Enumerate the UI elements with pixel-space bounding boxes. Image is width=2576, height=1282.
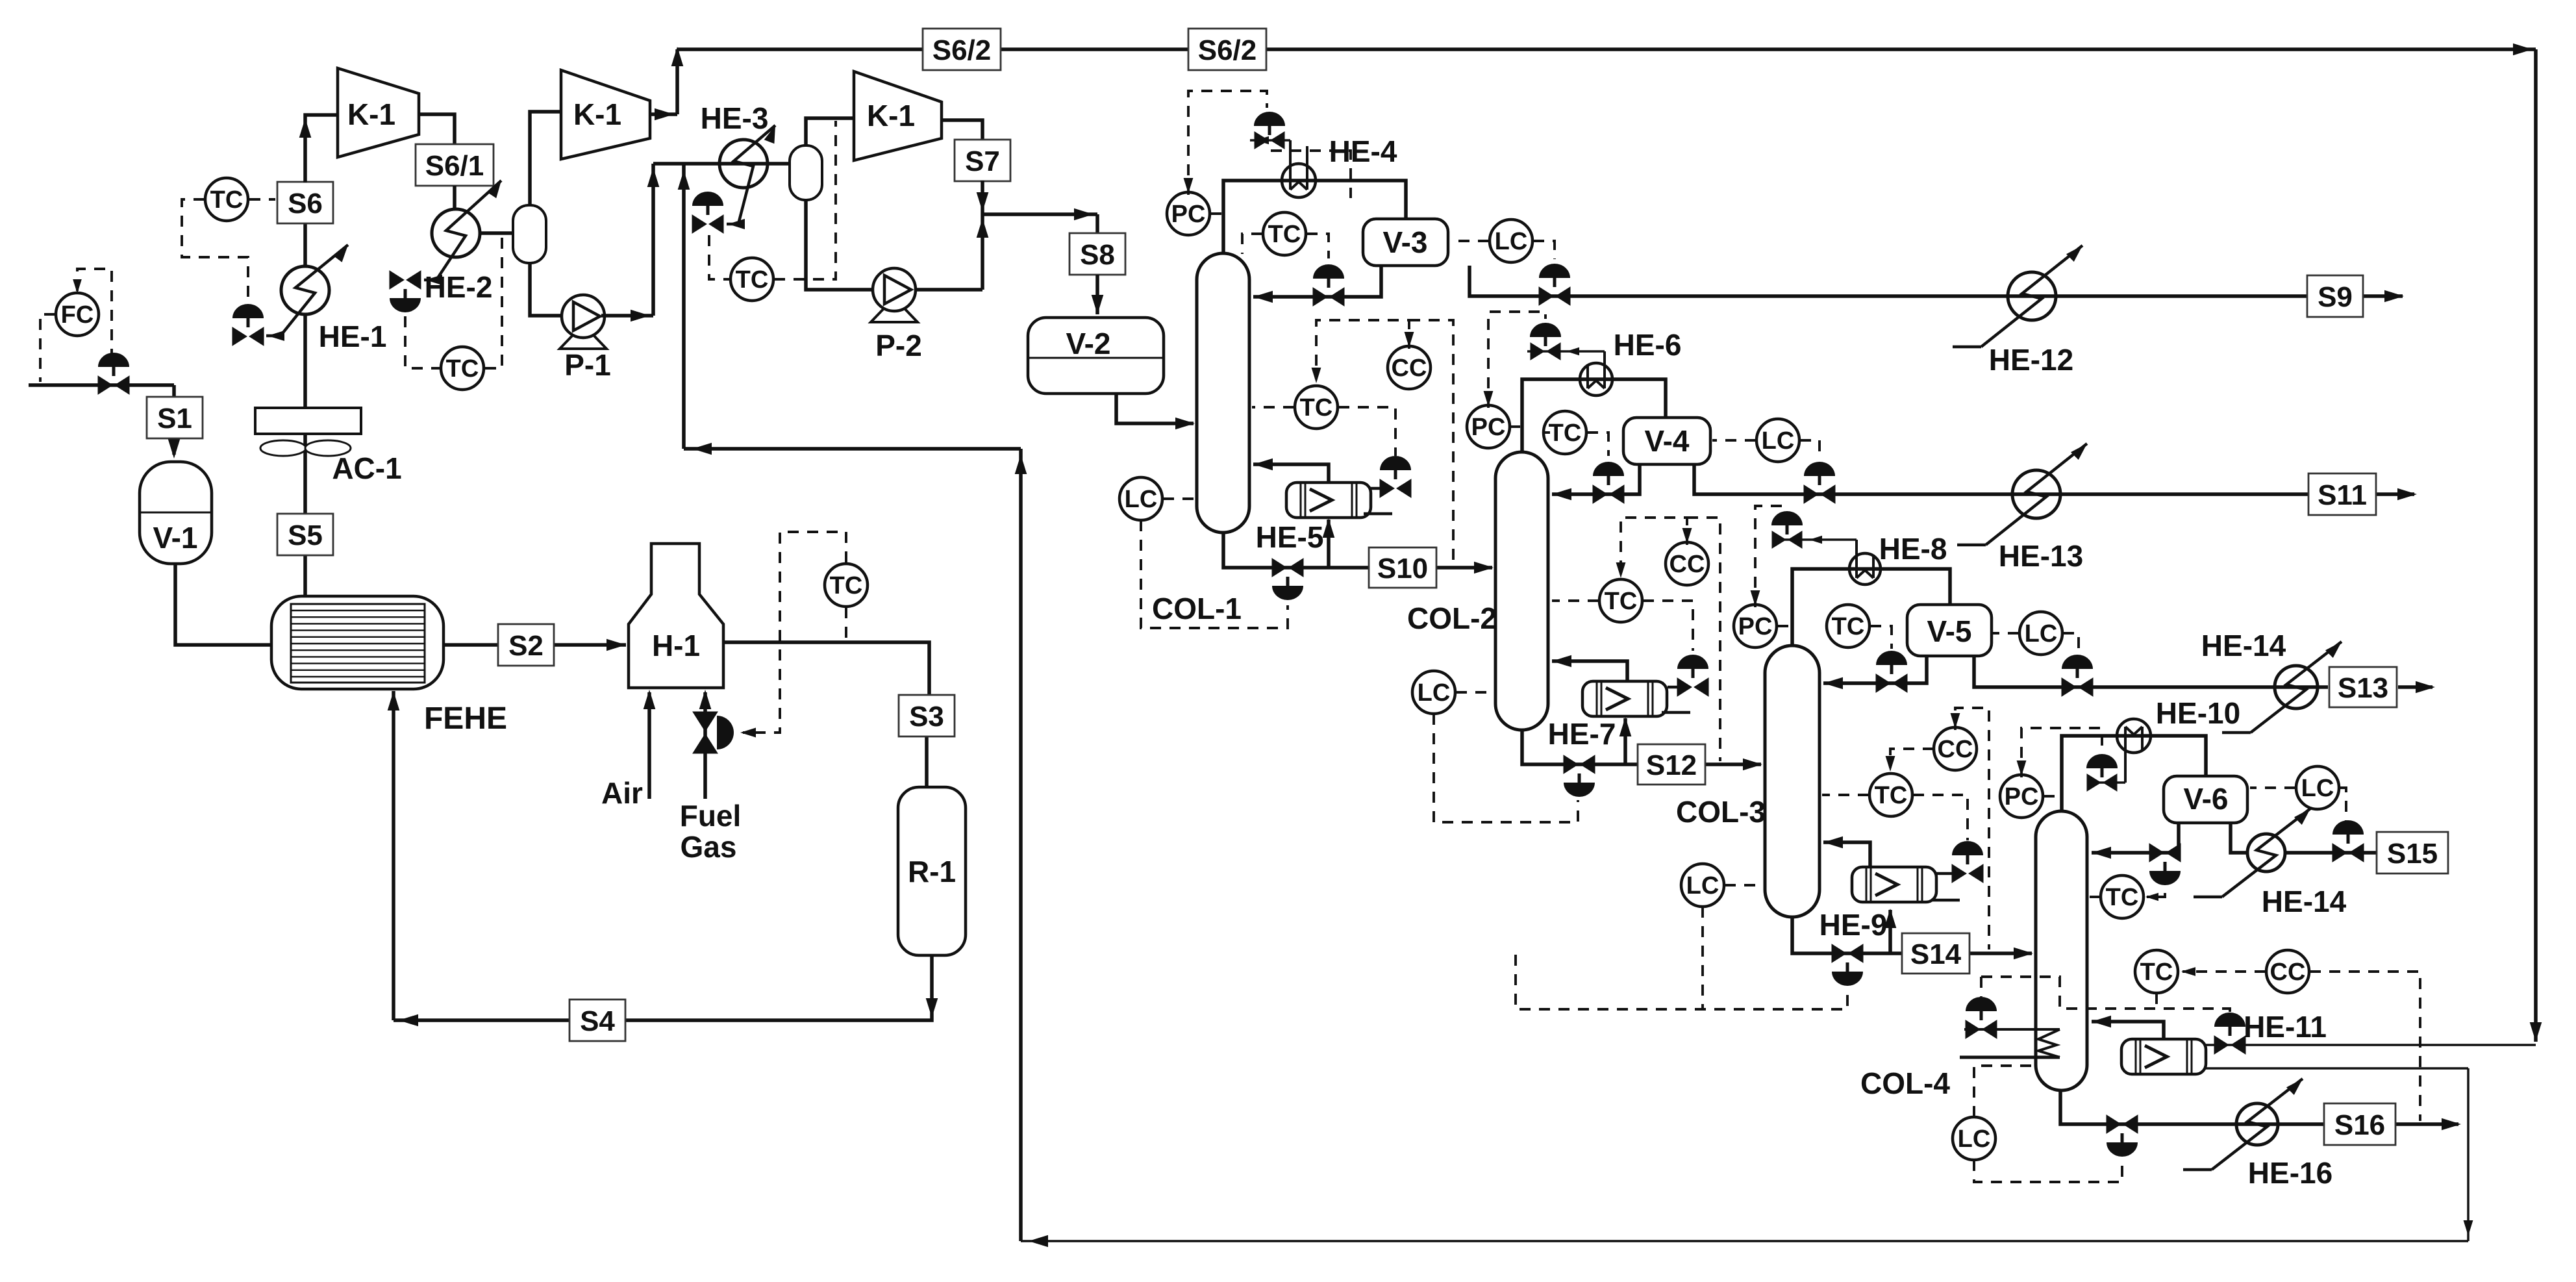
- wire HE-2 to flash drum: [481, 231, 513, 235]
- valve HE-4 coolant: [1254, 112, 1285, 149]
- svg-text:S12: S12: [1646, 749, 1697, 781]
- svg-text:TC: TC: [1549, 420, 1582, 447]
- label HE-14 top: [2201, 629, 2286, 662]
- svg-text:COL-2: COL-2: [1407, 601, 1497, 635]
- svg-text:HE-6: HE-6: [1614, 328, 1682, 362]
- wire TC HE-2 dashes: [405, 235, 502, 368]
- svg-text:HE-14: HE-14: [2201, 629, 2286, 662]
- furnace H-1: [629, 544, 723, 688]
- wire recycle riser to HE-3 line: [678, 164, 690, 449]
- valve S9 line: [1539, 264, 1570, 305]
- svg-text:S11: S11: [2318, 479, 2367, 511]
- heat-exchanger HE-3: [719, 140, 768, 188]
- wire K-1 out to S6/1: [419, 114, 455, 144]
- controller TC COL-4 lower: [2135, 950, 2178, 993]
- wire R-1 to S4 recycle to FEHE: [388, 691, 938, 1026]
- svg-text:S2: S2: [508, 630, 544, 662]
- svg-text:S9: S9: [2318, 281, 2353, 313]
- wire PC COL-2 dashes: [1484, 312, 1545, 427]
- wire TC COL-3 reflux dashes: [1870, 626, 1892, 649]
- wire recycle return vertical: [1015, 449, 1027, 1241]
- controller TC COL-3 reflux: [1827, 605, 1869, 647]
- controller LC V-6: [2296, 766, 2339, 809]
- valve HE-2 utility: [390, 271, 421, 312]
- label HE-4: [1329, 134, 1397, 168]
- heat-exchanger HE-2: [432, 209, 480, 257]
- wire HE-4 coolant control dashes: [1271, 151, 1351, 198]
- svg-text:COL-1: COL-1: [1152, 592, 1242, 625]
- svg-text:TC: TC: [1832, 613, 1865, 640]
- svg-text:R-1: R-1: [908, 855, 956, 888]
- wire LC COL-1 dashes: [1141, 499, 1288, 628]
- svg-text:FEHE: FEHE: [424, 701, 507, 736]
- svg-text:S14: S14: [1910, 938, 1962, 970]
- label HE-12: [1989, 343, 2073, 377]
- wire V-2 to COL-1 feed: [1116, 394, 1195, 429]
- svg-text:TC: TC: [830, 572, 863, 599]
- valve HE-11 steam: [2214, 1012, 2245, 1054]
- svg-text:S6/1: S6/1: [425, 150, 484, 182]
- reboiler HE-7: [1582, 681, 1667, 716]
- stream label S3: [899, 695, 955, 736]
- svg-text:LC: LC: [1958, 1125, 1991, 1153]
- label HE-1: [319, 320, 387, 353]
- svg-text:HE-11: HE-11: [2244, 1010, 2327, 1044]
- svg-text:P-1: P-1: [564, 348, 611, 382]
- wire TC HE-1 dashes: [182, 199, 275, 301]
- label HE-14 bottom: [2262, 885, 2347, 918]
- wire TC COL-2 reboiler dashes: [1552, 601, 1693, 651]
- wire HE-3 utility diagonal: [727, 125, 775, 229]
- wire LC COL-2 dashes: [1434, 692, 1578, 822]
- wire S6/1 to HE-2: [453, 186, 456, 209]
- controller TC HE-3: [731, 258, 773, 301]
- svg-text:HE-12: HE-12: [1989, 343, 2073, 377]
- controller PC COL-2: [1467, 405, 1510, 448]
- controller LC COL-3: [1681, 864, 1724, 907]
- stream label S13: [2329, 667, 2397, 707]
- svg-text:HE-2: HE-2: [425, 270, 493, 304]
- svg-text:FC: FC: [61, 301, 94, 329]
- heat-exchanger HE-13: [2012, 470, 2060, 518]
- label Fuel Gas: [680, 799, 742, 864]
- wire LC V-4 dashes: [1712, 440, 1819, 460]
- label HE-16: [2248, 1156, 2332, 1190]
- controller TC COL-2 reboiler: [1599, 579, 1642, 622]
- svg-text:PC: PC: [1471, 414, 1506, 441]
- stream label S12: [1638, 744, 1705, 785]
- wire TC HE-3 dashes: [709, 121, 836, 279]
- valve fuel gas: [693, 712, 734, 753]
- wire HE-14 top utility diagonal: [2222, 642, 2342, 733]
- condenser HE-8: [1773, 536, 1881, 584]
- svg-text:LC: LC: [1762, 427, 1795, 455]
- wire COL-4 side heater: [1960, 1029, 2060, 1057]
- controller CC COL-1: [1388, 346, 1431, 389]
- wire COL-3 overhead to HE-8 to V-5: [1792, 569, 1950, 646]
- wire V-1 to FEHE: [175, 564, 270, 645]
- svg-text:S10: S10: [1377, 553, 1428, 584]
- wire main line through HE-3: [653, 162, 790, 166]
- svg-text:Air: Air: [601, 776, 643, 810]
- wire HE-9 vapor return to COL-3: [1823, 836, 1870, 867]
- svg-text:V-4: V-4: [1644, 424, 1689, 458]
- label HE-2: [425, 270, 493, 304]
- label HE-10: [2156, 696, 2240, 730]
- valve HE-10 coolant: [2086, 754, 2118, 791]
- reboiler HE-9: [1852, 867, 1936, 902]
- wire HE-2 utility diagonal: [424, 181, 501, 285]
- stream label S15: [2377, 832, 2448, 874]
- svg-text:AC-1: AC-1: [332, 451, 401, 485]
- svg-text:HE-5: HE-5: [1256, 520, 1324, 554]
- condenser HE-4: [1250, 136, 1316, 197]
- wire CC COL-2 dashes: [1616, 518, 1720, 761]
- svg-text:LC: LC: [1125, 486, 1158, 513]
- vessel V-6: [2164, 776, 2247, 823]
- svg-text:Gas: Gas: [681, 830, 737, 864]
- valve HE-5 steam: [1380, 456, 1411, 497]
- valve FCV on feed line: [98, 353, 129, 394]
- svg-text:S5: S5: [288, 520, 323, 551]
- stream label S7: [955, 140, 1010, 181]
- wire FEHE to S2 to H-1: [444, 639, 626, 651]
- wire FC control dashes: [40, 269, 112, 382]
- label HE-7: [1548, 717, 1616, 751]
- stream label S10: [1369, 547, 1436, 588]
- stream label S6/2 left: [923, 29, 1001, 70]
- svg-text:S4: S4: [580, 1005, 615, 1037]
- wire V-6 to HE-14 to S15: [2231, 823, 2376, 853]
- wire HE-7 vapor return to COL-2: [1552, 655, 1627, 681]
- svg-text:S6: S6: [288, 188, 323, 220]
- wire AC-1 to HE-1: [303, 314, 307, 408]
- label HE-5: [1256, 520, 1324, 554]
- stream label S8: [1069, 233, 1125, 275]
- svg-text:HE-10: HE-10: [2156, 696, 2240, 730]
- controller PC COL-4: [2000, 775, 2043, 818]
- vessel flash drum 1: [513, 205, 546, 263]
- wire V-5 reflux to COL-3: [1823, 656, 1927, 689]
- wire LC COL-3 dashes: [1516, 885, 1847, 1009]
- valve S15 line: [2332, 820, 2364, 862]
- svg-text:CC: CC: [1938, 736, 1973, 763]
- svg-text:S3: S3: [909, 701, 944, 733]
- valve COL-3 bottoms: [1832, 944, 1863, 986]
- wire P-1 outlet riser: [601, 164, 659, 321]
- label HE-6: [1614, 328, 1682, 362]
- condenser HE-6: [1527, 347, 1612, 396]
- svg-text:K-1: K-1: [867, 99, 915, 132]
- svg-text:TC: TC: [1300, 394, 1333, 421]
- svg-text:HE-16: HE-16: [2248, 1156, 2332, 1190]
- wire drum1 to K-1 second stage: [530, 112, 560, 205]
- heat-exchanger HE-14 top: [2275, 666, 2318, 709]
- label Air: [601, 776, 643, 810]
- svg-text:HE-8: HE-8: [1879, 532, 1947, 566]
- wire fuel gas line into H-1: [699, 690, 712, 799]
- label FEHE: [424, 701, 507, 736]
- controller TC COL-3 reboiler: [1869, 773, 1912, 816]
- valve COL-2 reflux: [1593, 462, 1624, 503]
- controller CC COL-3: [1934, 727, 1977, 770]
- column COL-2: [1495, 452, 1548, 730]
- wire LC V-3 dashes: [1451, 241, 1555, 259]
- controller TC HE-2: [441, 347, 484, 390]
- wire PC COL-4 dashes: [2017, 728, 2102, 796]
- column COL-1: [1197, 253, 1249, 533]
- pump P-1: [560, 295, 611, 382]
- stream label S4: [569, 999, 625, 1041]
- heat-exchanger HE-16: [2236, 1103, 2278, 1145]
- svg-text:COL-4: COL-4: [1860, 1066, 1950, 1100]
- valve COL-3 reflux: [1876, 651, 1907, 692]
- svg-text:S6/2: S6/2: [1198, 34, 1257, 66]
- wire COL-2 bottoms S12 line: [1522, 717, 1762, 770]
- reboiler HE-11: [2121, 1039, 2206, 1074]
- wire LC V-6 dashes: [2250, 788, 2346, 821]
- wire K-1 second out to S6/2 header: [650, 47, 683, 120]
- svg-text:Fuel: Fuel: [680, 799, 742, 833]
- vessel flash drum 2: [790, 145, 822, 200]
- wire HE-5 steam line: [1364, 488, 1392, 514]
- wire H-1 outlet to S3: [723, 642, 929, 787]
- controller CC COL-4: [2266, 950, 2309, 993]
- wire TC COL-4 reflux dashes: [2090, 874, 2165, 901]
- wire V-5 distillate S13 line: [1974, 656, 2435, 693]
- wire V-4 reflux to COL-2: [1552, 464, 1640, 500]
- label COL-1: [1152, 592, 1242, 625]
- valve HE-8 coolant: [1771, 511, 1803, 548]
- label HE-9: [1819, 908, 1888, 942]
- stream label S6/2 right: [1188, 29, 1266, 70]
- wire LC COL-4 dashes: [1974, 1066, 2122, 1182]
- svg-text:S15: S15: [2387, 838, 2438, 870]
- wire HE-1 to S6: [303, 223, 307, 266]
- svg-text:LC: LC: [1495, 228, 1528, 255]
- svg-text:S7: S7: [965, 145, 1000, 177]
- valve COL-1 bottoms: [1272, 559, 1303, 600]
- svg-text:COL-3: COL-3: [1676, 795, 1766, 829]
- wire FEHE shell outlet riser S5: [303, 434, 307, 596]
- valve HE-1 utility: [232, 304, 264, 346]
- wire TC furnace dashes: [740, 532, 846, 737]
- wire V-4 distillate S11 line: [1694, 464, 2417, 500]
- svg-text:CC: CC: [1392, 355, 1427, 382]
- reboiler HE-5: [1286, 483, 1371, 518]
- svg-text:S6/2: S6/2: [932, 34, 992, 66]
- heat-exchanger HE-14 bottom: [2247, 834, 2285, 872]
- svg-text:S8: S8: [1080, 239, 1115, 271]
- wire V-3 distillate S9 line: [1469, 266, 2404, 302]
- controller CC COL-2: [1666, 542, 1708, 585]
- svg-text:HE-3: HE-3: [701, 101, 769, 135]
- svg-text:TC: TC: [210, 186, 244, 214]
- wire HE-11 condensate to bottom return: [2206, 1068, 2473, 1241]
- label HE-3: [701, 101, 769, 135]
- compressor K-1 first stage: [338, 68, 419, 157]
- wire air line into H-1: [644, 690, 656, 799]
- svg-text:TC: TC: [2140, 959, 2173, 986]
- wire TC COL-2 reflux dashes: [1543, 433, 1608, 456]
- wire K-1 third out to S7: [942, 120, 982, 140]
- stream label S2: [498, 624, 554, 666]
- stream label S6: [277, 182, 333, 223]
- svg-text:S13: S13: [2338, 672, 2388, 704]
- wire HE-12 utility diagonal: [1953, 245, 2082, 347]
- svg-text:V-2: V-2: [1066, 327, 1110, 360]
- vessel V-1: [140, 462, 212, 564]
- wire TC COL-3 reboiler dashes: [1822, 795, 1968, 840]
- svg-text:PC: PC: [1171, 201, 1206, 228]
- wire HE-9 steam line: [1931, 874, 1960, 900]
- wire HE-16 utility diagonal: [2183, 1079, 2303, 1170]
- svg-text:HE-13: HE-13: [1999, 539, 2083, 573]
- svg-text:TC: TC: [1605, 588, 1638, 615]
- wire P-2 outlet riser: [914, 214, 988, 290]
- heat-exchanger HE-12: [2008, 272, 2056, 320]
- svg-text:LC: LC: [2025, 620, 2058, 647]
- controller LC V-3: [1490, 220, 1532, 262]
- svg-text:TC: TC: [2106, 884, 2139, 911]
- valve COL-4 bottoms: [2107, 1115, 2138, 1157]
- vessel V-2: [1028, 318, 1164, 394]
- reactor R-1: [898, 787, 966, 955]
- valve COL-2 bottoms: [1564, 755, 1595, 797]
- valve COL-4 reflux: [2149, 844, 2181, 885]
- controller TC COL-4 reflux: [2101, 875, 2144, 918]
- wire HE-7 steam line: [1662, 687, 1690, 712]
- valve HE-3 utility: [692, 192, 723, 233]
- svg-text:LC: LC: [1686, 872, 1719, 899]
- wire CC COL-4 dashes: [2181, 967, 2420, 1121]
- wire COL-4 overhead to HE-10 to V-6: [2062, 736, 2206, 811]
- svg-text:V-6: V-6: [2183, 782, 2228, 816]
- wire HE-5 vapor return to COL-1: [1253, 459, 1329, 483]
- wire CC COL-3 dashes: [1886, 708, 1989, 949]
- vessel V-4: [1623, 418, 1710, 464]
- svg-text:V-1: V-1: [153, 521, 197, 555]
- heat-exchanger FEHE shell: [271, 596, 444, 689]
- svg-text:K-1: K-1: [573, 97, 621, 131]
- controller TC HE-1: [205, 178, 248, 221]
- svg-text:S16: S16: [2334, 1109, 2385, 1141]
- svg-text:CC: CC: [2270, 959, 2306, 986]
- column COL-3: [1765, 646, 1819, 917]
- wire recycle return horizontal: [684, 443, 1021, 455]
- wire V-6 reflux to COL-4: [2092, 823, 2179, 859]
- wire S8 into V-2: [1092, 275, 1104, 314]
- wire COL-3 bottoms S14 line: [1792, 909, 2033, 959]
- pump P-2: [871, 268, 922, 362]
- svg-text:HE-7: HE-7: [1548, 717, 1616, 751]
- wire feed inlet line S1: [29, 385, 180, 459]
- valve S13 line: [2062, 655, 2093, 696]
- wire S7 down to junction: [977, 181, 989, 214]
- svg-text:CC: CC: [1669, 551, 1705, 578]
- valve HE-9 steam: [1952, 841, 1983, 883]
- compressor K-1 third stage: [854, 71, 942, 160]
- controller FC: [56, 293, 99, 336]
- svg-text:TC: TC: [1268, 221, 1301, 248]
- controller TC COL-1 reboiler: [1295, 386, 1338, 429]
- valve COL-4 side heater: [1966, 997, 1997, 1038]
- wire HE-11 vapor return to COL-4: [2092, 1016, 2164, 1039]
- controller LC COL-2: [1412, 671, 1455, 714]
- label COL-3: [1676, 795, 1766, 829]
- wire TC COL-1 reflux dashes: [1242, 234, 1329, 258]
- svg-text:HE-4: HE-4: [1329, 134, 1397, 168]
- stream label S16: [2324, 1103, 2395, 1145]
- svg-text:TC: TC: [446, 355, 479, 383]
- wire junction to S8: [982, 208, 1097, 233]
- valve HE-6 coolant: [1530, 323, 1561, 360]
- label AC-1: [332, 451, 401, 485]
- svg-text:HE-14: HE-14: [2262, 885, 2347, 918]
- stream label S11: [2308, 473, 2376, 515]
- controller LC V-4: [1757, 419, 1799, 462]
- wire CC COL-1 dashes: [1312, 320, 1453, 565]
- svg-text:TC: TC: [1875, 782, 1908, 809]
- wire HE-13 utility diagonal: [1957, 444, 2087, 545]
- controller TC COL-1 reflux: [1263, 212, 1306, 255]
- wire TC COL-1 reboiler dashes: [1252, 407, 1395, 456]
- compressor K-1 second stage: [561, 70, 650, 159]
- wire drum1 to P-1: [530, 263, 562, 316]
- svg-text:S1: S1: [157, 403, 192, 434]
- label COL-4: [1860, 1066, 1950, 1100]
- svg-text:H-1: H-1: [652, 629, 700, 662]
- vessel V-3: [1363, 219, 1448, 266]
- label COL-2: [1407, 601, 1497, 635]
- controller LC COL-1: [1119, 477, 1162, 520]
- svg-text:LC: LC: [1418, 679, 1451, 707]
- wire COL-1 bottoms S10 line: [1223, 518, 1494, 573]
- wire COL-4 bottoms S16 line: [2060, 1090, 2461, 1130]
- wire bottom return line: [1021, 1235, 2468, 1248]
- valve COL-1 reflux: [1313, 264, 1344, 306]
- controller LC V-5: [2020, 612, 2062, 655]
- svg-text:V-5: V-5: [1927, 614, 1971, 648]
- label HE-13: [1999, 539, 2083, 573]
- stream label S6/1: [416, 144, 494, 186]
- air-cooler AC-1: [255, 408, 361, 456]
- svg-text:HE-9: HE-9: [1819, 908, 1888, 942]
- condenser HE-10: [2088, 719, 2151, 783]
- stream label S1: [147, 397, 203, 438]
- controller TC furnace: [825, 564, 868, 607]
- wire V-3 reflux to COL-1: [1253, 266, 1381, 303]
- svg-text:TC: TC: [736, 266, 769, 294]
- heat-exchanger HE-1: [281, 266, 329, 314]
- controller LC COL-4: [1953, 1117, 1995, 1160]
- heat-exchanger FEHE tube bundle: [291, 604, 425, 683]
- controller TC COL-2 reflux: [1544, 411, 1586, 454]
- wire S6/2 right side downcomer: [2206, 49, 2542, 1045]
- wire TC COL-4 lower output dashes: [1981, 977, 2230, 1012]
- wire S6/2 top header: [677, 44, 2536, 56]
- stream label S9: [2307, 275, 2363, 317]
- stream label S14: [1902, 933, 1970, 974]
- wire HE-14 bottom utility diagonal: [2194, 809, 2310, 897]
- wire COL-2 overhead to HE-6 to V-4: [1522, 379, 1666, 452]
- wire PC COL-3 dashes: [1751, 506, 1790, 626]
- wire drum2 to P-2: [806, 200, 873, 290]
- column COL-4: [2036, 811, 2087, 1090]
- svg-text:LC: LC: [2301, 775, 2334, 802]
- wire HE-1 utility diagonal: [266, 245, 348, 341]
- svg-text:K-1: K-1: [347, 97, 395, 131]
